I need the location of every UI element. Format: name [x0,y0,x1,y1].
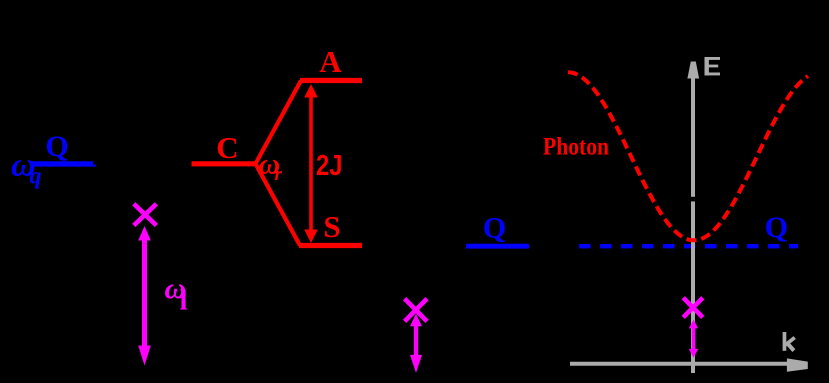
svg-text:2J: 2J [316,150,343,182]
svg-text:Q: Q [483,212,506,245]
svg-text:S: S [323,209,340,244]
svg-text:A: A [319,44,342,79]
svg-text:q: q [30,164,42,190]
svg-text:Q: Q [45,130,68,163]
svg-text:r: r [275,164,283,185]
svg-text:l: l [180,285,188,317]
svg-text:Q: Q [765,211,788,244]
svg-text:Photon: Photon [543,134,609,161]
svg-text:C: C [216,130,238,165]
